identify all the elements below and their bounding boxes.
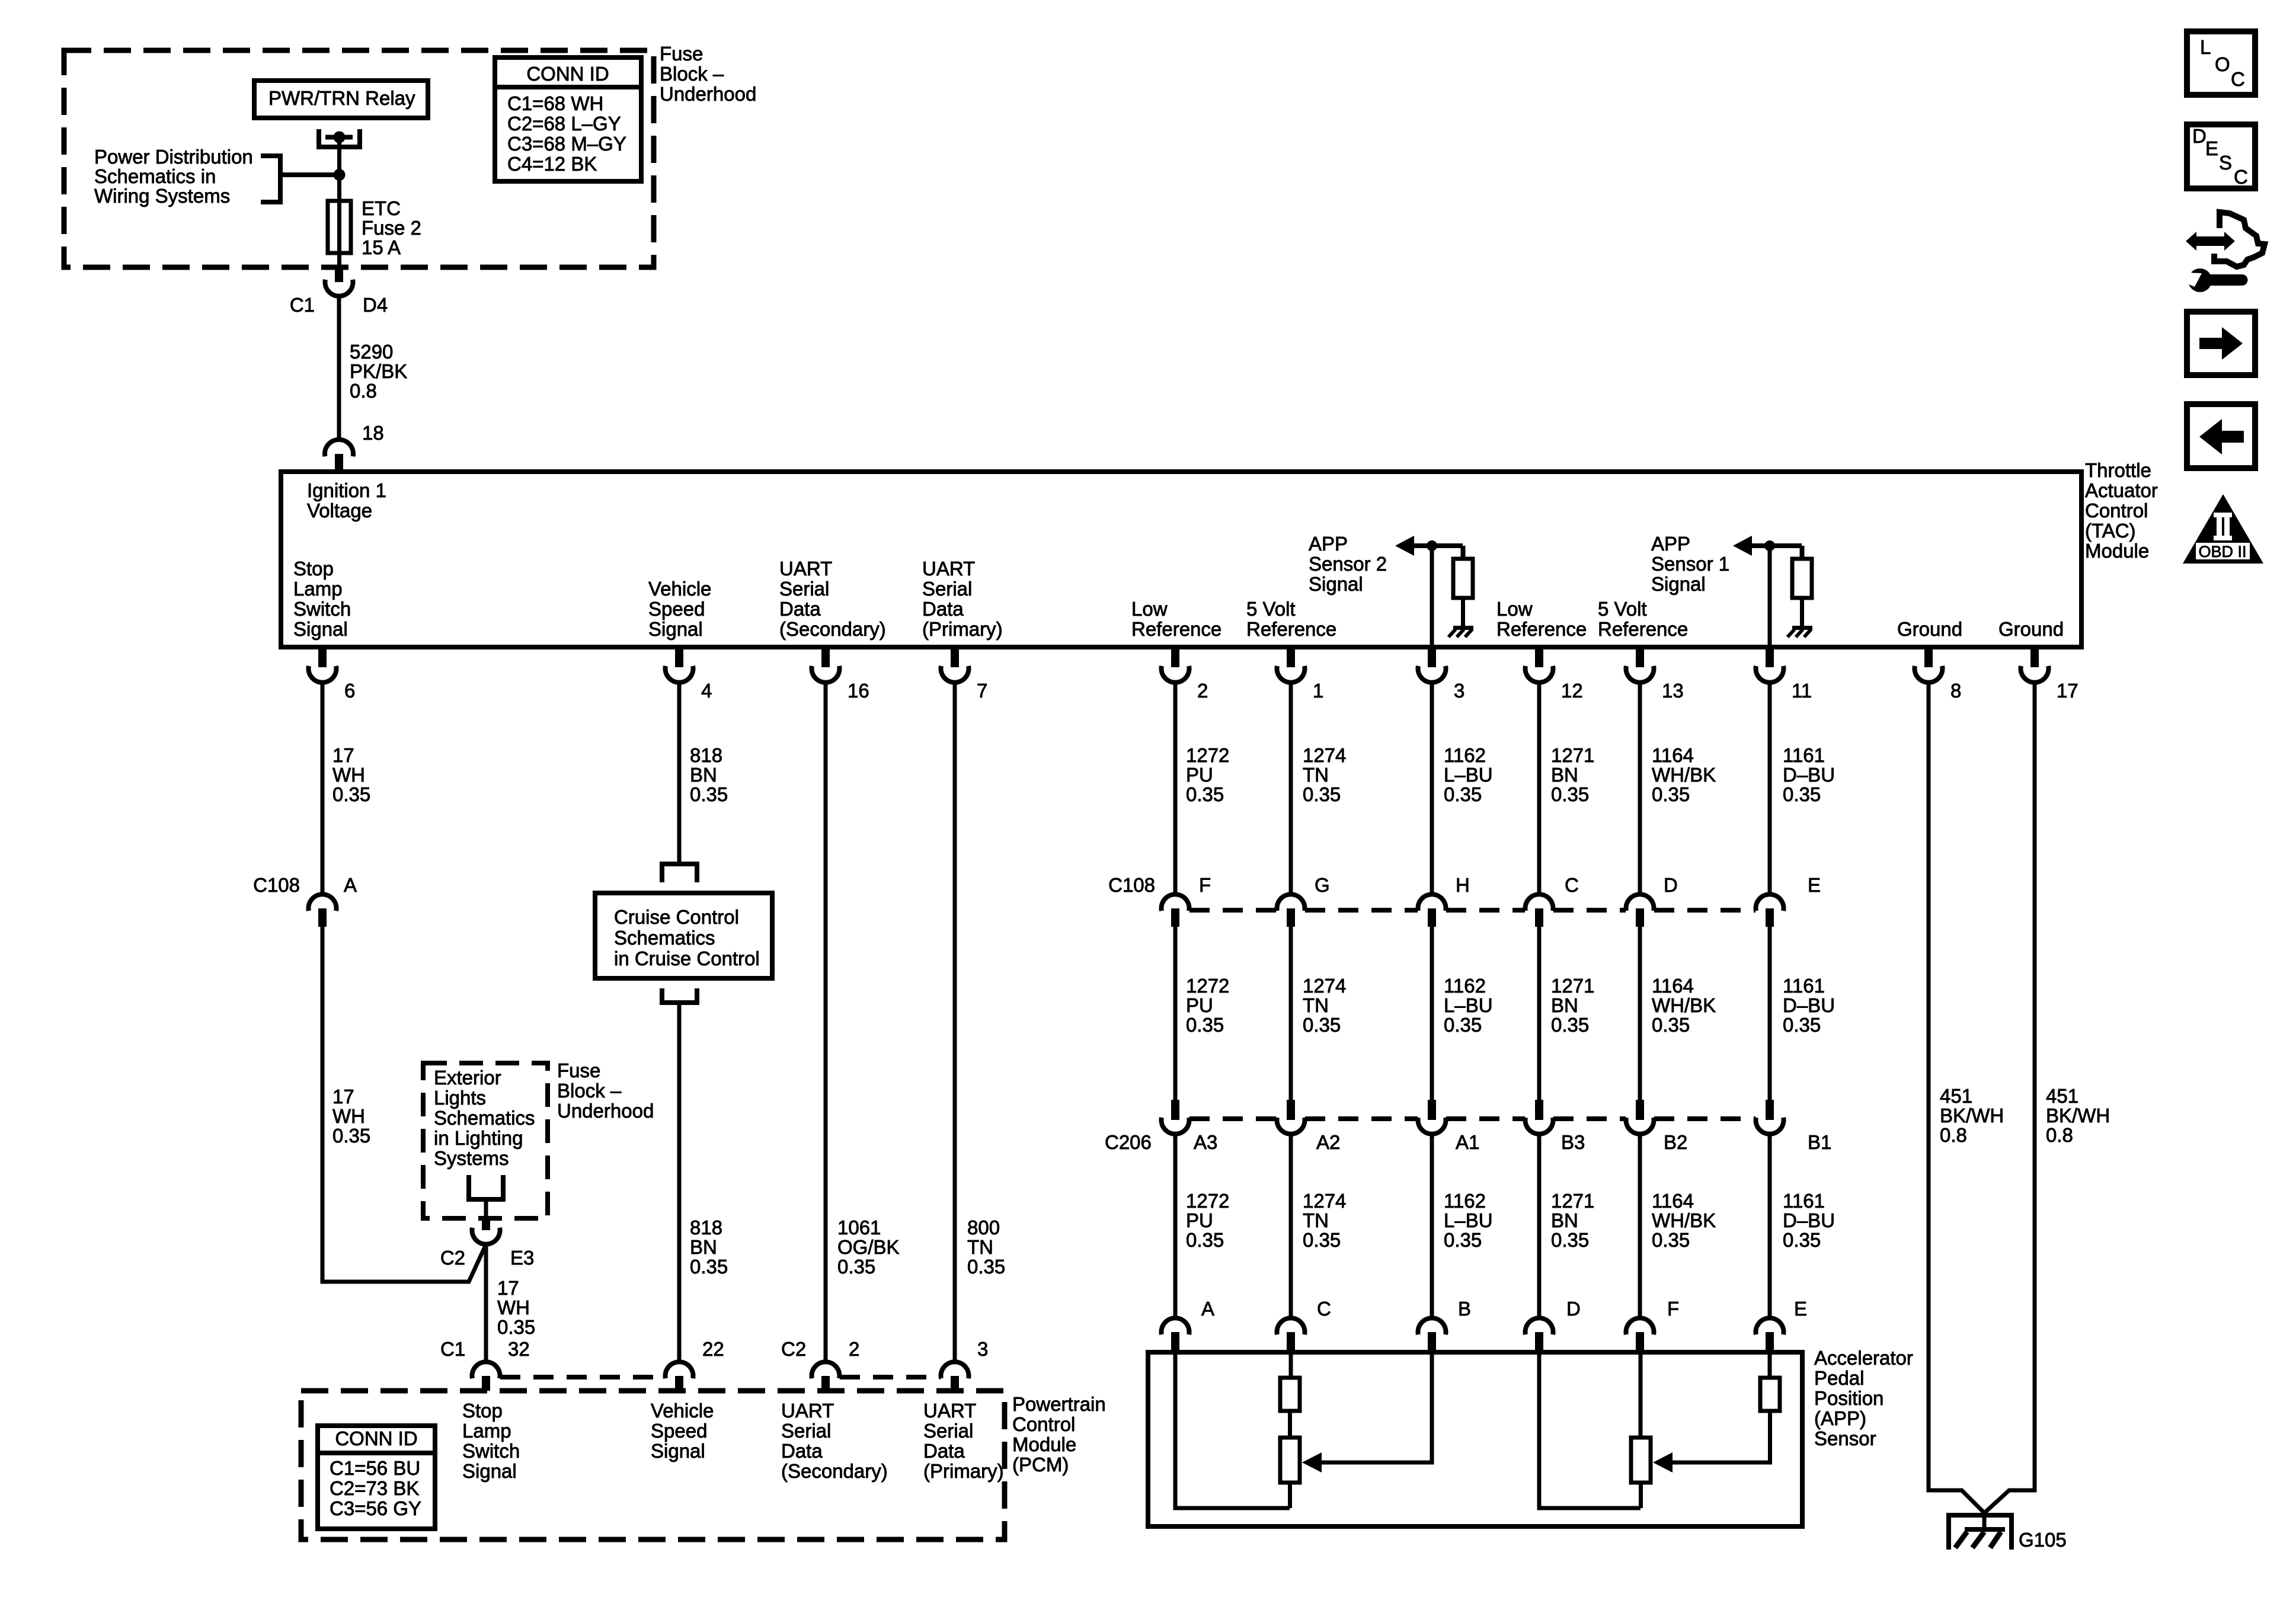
- svg-text:1271: 1271: [1551, 744, 1594, 766]
- icon forward arrow box: [2187, 312, 2255, 375]
- svg-text:C206: C206: [1105, 1131, 1152, 1153]
- arrow APP sensor 2 signal (points left): [1395, 536, 1414, 556]
- ground G105: [1948, 1513, 2014, 1518]
- svg-text:1161: 1161: [1783, 975, 1825, 997]
- wire 1272 PU (upper segment): [1173, 682, 1178, 895]
- svg-text:Module: Module: [1012, 1433, 1076, 1455]
- svg-text:17: 17: [497, 1277, 519, 1299]
- svg-text:Ground: Ground: [1897, 618, 1962, 640]
- wire 1272 PU (lower segment): [1173, 1134, 1178, 1318]
- relay contact symbol: [319, 129, 360, 147]
- svg-text:Schematics: Schematics: [614, 927, 715, 949]
- resistor APP2 divider (upper): [1280, 1378, 1300, 1411]
- wire C206 harness (dashed): [1189, 1116, 1277, 1121]
- wire 1161 D&#8211;BU (middle segment): [1768, 927, 1772, 1100]
- svg-text:818: 818: [690, 1217, 722, 1238]
- wire 1274 TN (middle segment): [1289, 927, 1293, 1100]
- svg-text:Signal: Signal: [462, 1460, 517, 1482]
- wire 818 BN to cruise bracket: [677, 862, 682, 866]
- svg-text:Switch: Switch: [293, 598, 351, 620]
- svg-text:1271: 1271: [1551, 1190, 1594, 1212]
- resistor R-APP1 (internal): [1792, 559, 1812, 598]
- icon jump (double arrow, polygon, wrench): [2186, 232, 2196, 251]
- svg-text:L: L: [2200, 36, 2211, 58]
- TAC module box (Throttle Actuator Control): [281, 472, 2081, 647]
- svg-text:Low: Low: [1131, 598, 1168, 620]
- svg-text:PU: PU: [1186, 994, 1213, 1016]
- svg-text:A: A: [1201, 1298, 1214, 1320]
- svg-text:CONN ID: CONN ID: [526, 63, 609, 85]
- svg-text:Exterior: Exterior: [434, 1067, 501, 1089]
- wire C108 harness (dashed): [1305, 908, 1418, 913]
- svg-text:Signal: Signal: [293, 618, 348, 640]
- wire 1164 WH/BK (upper segment): [1638, 682, 1642, 895]
- svg-text:UART: UART: [923, 1400, 976, 1422]
- svg-text:Ignition 1: Ignition 1: [307, 479, 386, 501]
- svg-text:1271: 1271: [1551, 975, 1594, 997]
- svg-text:12: 12: [1561, 680, 1583, 702]
- svg-text:G: G: [1315, 874, 1330, 896]
- svg-text:0.35: 0.35: [837, 1256, 875, 1278]
- svg-text:(APP): (APP): [1814, 1407, 1866, 1429]
- ground (internal, APP1): [1792, 626, 1812, 630]
- svg-text:E: E: [1808, 874, 1821, 896]
- wire 451 BK/WH (pin 17): [1982, 682, 2035, 1515]
- svg-text:0.35: 0.35: [1444, 1014, 1482, 1036]
- svg-text:5 Volt: 5 Volt: [1246, 598, 1296, 620]
- svg-text:UART: UART: [779, 558, 832, 580]
- svg-text:3: 3: [1454, 680, 1464, 702]
- ground (internal, APP2): [1453, 626, 1473, 630]
- wire pin3 internal: [1430, 546, 1434, 647]
- svg-text:1272: 1272: [1186, 744, 1229, 766]
- svg-text:ETC: ETC: [362, 197, 401, 219]
- svg-text:0.35: 0.35: [1783, 783, 1821, 805]
- wire C108 harness (dashed): [1553, 908, 1626, 913]
- svg-text:WH/BK: WH/BK: [1652, 994, 1716, 1016]
- svg-text:Block –: Block –: [557, 1080, 622, 1102]
- svg-text:Signal: Signal: [651, 1440, 705, 1462]
- svg-text:0.35: 0.35: [1303, 1014, 1341, 1036]
- svg-text:D–BU: D–BU: [1783, 764, 1835, 786]
- svg-text:1274: 1274: [1303, 744, 1346, 766]
- svg-text:(Secondary): (Secondary): [779, 618, 886, 640]
- resistor R-APP2 (internal): [1453, 559, 1473, 598]
- svg-text:S: S: [2219, 152, 2232, 174]
- svg-text:A2: A2: [1316, 1131, 1340, 1153]
- wire PCM harness dashed (2-3): [840, 1375, 941, 1379]
- svg-text:B1: B1: [1808, 1131, 1831, 1153]
- svg-text:18: 18: [362, 422, 384, 444]
- svg-text:1: 1: [1313, 680, 1323, 702]
- svg-text:Data: Data: [922, 598, 964, 620]
- svg-text:Lamp: Lamp: [462, 1420, 511, 1442]
- svg-text:0.35: 0.35: [1551, 1229, 1589, 1251]
- potentiometer APP2 element: [1280, 1438, 1300, 1483]
- svg-text:BK/WH: BK/WH: [1940, 1105, 2004, 1126]
- svg-text:C108: C108: [1108, 874, 1155, 896]
- svg-text:C: C: [1317, 1298, 1331, 1320]
- svg-text:D–BU: D–BU: [1783, 994, 1835, 1016]
- svg-text:A: A: [344, 874, 357, 896]
- wire C206 harness (dashed): [1305, 1116, 1418, 1121]
- exterior lights schematics box (dashed): [423, 1063, 548, 1218]
- svg-text:C108: C108: [253, 874, 300, 896]
- svg-text:0.35: 0.35: [332, 1125, 370, 1147]
- svg-text:BN: BN: [690, 1236, 717, 1258]
- svg-text:F: F: [1667, 1298, 1679, 1320]
- svg-text:Sensor: Sensor: [1814, 1427, 1876, 1449]
- fuse block - underhood (dashed outline): [64, 50, 654, 267]
- svg-text:Speed: Speed: [651, 1420, 707, 1442]
- svg-text:Lights: Lights: [434, 1087, 486, 1109]
- svg-text:2: 2: [1197, 680, 1208, 702]
- svg-text:B2: B2: [1664, 1131, 1687, 1153]
- svg-text:UART: UART: [922, 558, 975, 580]
- svg-text:0.8: 0.8: [2046, 1124, 2073, 1146]
- svg-text:Sensor 1: Sensor 1: [1651, 553, 1729, 575]
- wire 1164 WH/BK (lower segment): [1638, 1134, 1642, 1318]
- svg-text:(PCM): (PCM): [1012, 1454, 1069, 1475]
- svg-text:Vehicle: Vehicle: [651, 1400, 714, 1422]
- svg-text:Powertrain: Powertrain: [1012, 1393, 1106, 1415]
- svg-text:(Primary): (Primary): [923, 1460, 1004, 1482]
- svg-text:Cruise Control: Cruise Control: [614, 906, 739, 928]
- svg-text:Wiring Systems: Wiring Systems: [94, 185, 230, 207]
- svg-text:BN: BN: [690, 764, 717, 786]
- svg-text:CONN ID: CONN ID: [335, 1427, 417, 1449]
- svg-text:8: 8: [1950, 680, 1961, 702]
- svg-text:WH: WH: [497, 1297, 530, 1318]
- svg-text:Schematics: Schematics: [434, 1107, 535, 1129]
- svg-text:3: 3: [977, 1338, 988, 1360]
- pin 13 (TAC module): [1636, 649, 1644, 667]
- svg-text:PU: PU: [1186, 764, 1213, 786]
- svg-text:WH: WH: [332, 764, 365, 786]
- svg-text:Accelerator: Accelerator: [1814, 1347, 1913, 1369]
- svg-text:7: 7: [977, 680, 987, 702]
- svg-text:TN: TN: [1303, 994, 1329, 1016]
- wire 17 WH (pin 6 upper segment): [321, 682, 325, 895]
- connector C206 pin A2: [1287, 1100, 1295, 1120]
- svg-text:Speed: Speed: [648, 598, 705, 620]
- connector C108 pin E: [1756, 894, 1784, 911]
- svg-text:Throttle: Throttle: [2085, 459, 2151, 481]
- svg-text:1164: 1164: [1652, 975, 1694, 997]
- connector C206 pin B1: [1766, 1100, 1774, 1120]
- svg-text:0.35: 0.35: [1186, 1229, 1224, 1251]
- svg-text:C2: C2: [781, 1338, 806, 1360]
- svg-text:32: 32: [508, 1338, 530, 1360]
- wire bracket to connector C2: [484, 1199, 488, 1216]
- svg-text:E: E: [1794, 1298, 1807, 1320]
- svg-text:Data: Data: [781, 1440, 823, 1462]
- wire APP1 pull-up corner: [1800, 546, 1805, 559]
- svg-text:L–BU: L–BU: [1444, 1209, 1493, 1231]
- wire 1271 BN (middle segment): [1537, 927, 1542, 1100]
- resistor APP1 divider (upper): [1760, 1378, 1780, 1411]
- svg-text:Position: Position: [1814, 1387, 1884, 1409]
- svg-text:0.35: 0.35: [967, 1256, 1005, 1278]
- pin 2 (TAC module): [1171, 649, 1179, 667]
- pin 16 (TAC module): [821, 649, 830, 667]
- svg-text:in Cruise Control: in Cruise Control: [614, 948, 760, 969]
- svg-text:Underhood: Underhood: [557, 1100, 654, 1122]
- svg-text:C1=68 WH: C1=68 WH: [507, 92, 603, 114]
- svg-text:0.35: 0.35: [1303, 783, 1341, 805]
- svg-text:Lamp: Lamp: [293, 578, 343, 600]
- svg-text:O: O: [2215, 53, 2230, 75]
- pin 11 (TAC module): [1766, 649, 1774, 667]
- wire APP2 pull-up corner: [1461, 546, 1466, 559]
- svg-text:D: D: [2192, 125, 2207, 147]
- connector C206 pin A1: [1428, 1100, 1436, 1120]
- svg-text:Sensor 2: Sensor 2: [1309, 553, 1387, 575]
- svg-text:(Secondary): (Secondary): [781, 1460, 888, 1482]
- svg-text:D–BU: D–BU: [1783, 1209, 1835, 1231]
- svg-text:Serial: Serial: [781, 1420, 831, 1442]
- icon DESC box: [2187, 124, 2255, 188]
- svg-text:C2: C2: [440, 1247, 465, 1269]
- svg-text:WH/BK: WH/BK: [1652, 764, 1716, 786]
- svg-text:BN: BN: [1551, 994, 1578, 1016]
- wire APP pin E to resistor: [1768, 1352, 1772, 1378]
- svg-text:5 Volt: 5 Volt: [1598, 598, 1647, 620]
- svg-text:Pedal: Pedal: [1814, 1367, 1864, 1389]
- junction J1 (node): [334, 169, 346, 181]
- svg-text:OG/BK: OG/BK: [837, 1236, 900, 1258]
- fuse ETC Fuse 2 15 A: [328, 201, 351, 253]
- svg-text:Data: Data: [779, 598, 821, 620]
- svg-text:17: 17: [2057, 680, 2078, 702]
- svg-text:C: C: [1565, 874, 1579, 896]
- wire 1274 TN (upper segment): [1289, 682, 1293, 895]
- wire C206 harness (dashed): [1553, 1116, 1626, 1121]
- svg-text:Stop: Stop: [293, 558, 334, 580]
- wire C108 harness (dashed): [1446, 908, 1525, 913]
- pin 3 (TAC module): [1428, 649, 1436, 667]
- svg-text:16: 16: [848, 680, 869, 702]
- wire fuse to connector C1: [337, 253, 341, 265]
- connector C108 pin F: [1162, 894, 1189, 911]
- svg-text:WH/BK: WH/BK: [1652, 1209, 1716, 1231]
- svg-text:C1: C1: [290, 294, 315, 316]
- svg-text:TN: TN: [967, 1236, 993, 1258]
- wire APP pin B wiper: [1320, 1352, 1432, 1462]
- svg-text:0.35: 0.35: [1783, 1014, 1821, 1036]
- svg-text:Actuator: Actuator: [2085, 479, 2158, 501]
- connector C108 pin H: [1418, 894, 1446, 911]
- svg-text:Serial: Serial: [923, 1420, 973, 1442]
- svg-text:4: 4: [701, 680, 712, 702]
- svg-text:E3: E3: [510, 1247, 534, 1269]
- svg-text:OBD II: OBD II: [2198, 543, 2246, 561]
- svg-text:0.35: 0.35: [1444, 1229, 1482, 1251]
- wire pin11 internal: [1768, 546, 1772, 647]
- svg-text:in Lighting: in Lighting: [434, 1127, 523, 1149]
- svg-text:Data: Data: [923, 1440, 965, 1462]
- svg-text:0.35: 0.35: [690, 1256, 728, 1278]
- conn id table (fuse block): [495, 57, 641, 181]
- wire 1162 L&#8211;BU (middle segment): [1430, 927, 1434, 1100]
- svg-text:11: 11: [1792, 680, 1812, 702]
- icon LOC box: [2187, 31, 2255, 95]
- svg-text:WH: WH: [332, 1105, 365, 1127]
- svg-text:0.35: 0.35: [497, 1316, 535, 1338]
- connector C108 pin C: [1526, 894, 1553, 911]
- svg-text:L–BU: L–BU: [1444, 764, 1493, 786]
- svg-text:451: 451: [1940, 1085, 1972, 1107]
- svg-text:BN: BN: [1551, 764, 1578, 786]
- svg-text:C4=12 BK: C4=12 BK: [507, 153, 597, 175]
- wire 451 BK/WH (pin 8): [1929, 682, 1987, 1515]
- wire 1274 TN (lower segment): [1289, 1134, 1293, 1318]
- svg-text:0.35: 0.35: [1783, 1229, 1821, 1251]
- svg-text:C3=56 GY: C3=56 GY: [330, 1497, 421, 1519]
- wire 17 WH (E3 to PCM): [484, 1244, 488, 1362]
- svg-text:1162: 1162: [1444, 1190, 1486, 1212]
- wire 1271 BN (lower segment): [1537, 1134, 1542, 1318]
- relay PWR/TRN Relay (name box): [254, 81, 428, 118]
- wire 800 TN (pin 7 segment): [953, 682, 957, 1362]
- svg-text:Systems: Systems: [434, 1147, 509, 1169]
- node: APP1 junction dot: [1764, 540, 1775, 551]
- svg-text:D: D: [1664, 874, 1678, 896]
- svg-text:0.35: 0.35: [1303, 1229, 1341, 1251]
- svg-text:C3=68 M–GY: C3=68 M–GY: [507, 133, 626, 155]
- svg-text:13: 13: [1662, 680, 1684, 702]
- svg-text:Power Distribution: Power Distribution: [94, 146, 253, 168]
- svg-text:5290: 5290: [350, 341, 393, 363]
- wire APP pin D to pot low: [1539, 1352, 1641, 1508]
- wire PCM harness dashed (32-22): [500, 1375, 665, 1379]
- svg-text:APP: APP: [1651, 533, 1690, 555]
- svg-text:F: F: [1199, 874, 1211, 896]
- connector C108 pin G: [1277, 894, 1305, 911]
- connector C206 pin A3: [1171, 1100, 1179, 1120]
- svg-text:Schematics in: Schematics in: [94, 165, 216, 187]
- potentiometer APP1 element: [1631, 1438, 1651, 1483]
- wire 1061 OG/BK (pin 16 segment): [824, 682, 828, 1362]
- svg-text:L–BU: L–BU: [1444, 994, 1493, 1016]
- wire 1272 PU (middle segment): [1173, 927, 1178, 1100]
- wire 1271 BN (upper segment): [1537, 682, 1542, 895]
- svg-text:H: H: [1456, 874, 1470, 896]
- svg-text:0.35: 0.35: [690, 783, 728, 805]
- svg-text:1274: 1274: [1303, 1190, 1346, 1212]
- svg-text:Stop: Stop: [462, 1400, 503, 1422]
- svg-text:B3: B3: [1561, 1131, 1585, 1153]
- arrow wiper APP1 (points left): [1653, 1452, 1673, 1473]
- svg-text:C2=73 BK: C2=73 BK: [330, 1477, 419, 1499]
- wire R-APP1 to ground: [1800, 598, 1804, 626]
- pin 6 (TAC module): [318, 649, 327, 667]
- wire C108 harness (dashed): [1654, 908, 1755, 913]
- pin 7 (TAC module): [951, 649, 959, 667]
- svg-text:D: D: [1566, 1298, 1581, 1320]
- connector C108 pin D: [1626, 894, 1654, 911]
- wire 1161 D&#8211;BU (upper segment): [1768, 682, 1772, 895]
- wire APP pin A to pot low: [1175, 1352, 1290, 1508]
- arrow wiper APP2 (points left): [1302, 1452, 1322, 1473]
- svg-text:Voltage: Voltage: [307, 500, 372, 521]
- svg-text:Reference: Reference: [1246, 618, 1336, 640]
- connector C206 pin B3: [1535, 1100, 1543, 1120]
- svg-text:Control: Control: [2085, 500, 2148, 521]
- pin 1 (TAC module): [1287, 649, 1295, 667]
- svg-text:1161: 1161: [1783, 744, 1825, 766]
- svg-text:(TAC): (TAC): [2085, 520, 2136, 542]
- svg-text:1164: 1164: [1652, 744, 1694, 766]
- wire 17 WH (lower run: down, right, diagonal): [322, 927, 486, 1282]
- APP sensor box (Accelerator Pedal Position): [1148, 1352, 1802, 1526]
- svg-text:C1=56 BU: C1=56 BU: [330, 1457, 420, 1479]
- wire pot bottom (APP2): [1288, 1483, 1292, 1508]
- off-page bracket (exterior lights): [466, 1175, 471, 1199]
- connector C206 pin B2: [1636, 1100, 1644, 1120]
- svg-text:1162: 1162: [1444, 744, 1486, 766]
- wire APP pin E wiper: [1671, 1411, 1770, 1462]
- wire 1162 L&#8211;BU (upper segment): [1430, 682, 1434, 895]
- svg-text:1061: 1061: [837, 1217, 881, 1238]
- svg-text:A3: A3: [1194, 1131, 1217, 1153]
- svg-text:1272: 1272: [1186, 1190, 1229, 1212]
- icon back arrow box: [2187, 404, 2255, 468]
- svg-text:D4: D4: [363, 294, 388, 316]
- svg-text:0.8: 0.8: [1940, 1124, 1967, 1146]
- svg-text:17: 17: [332, 744, 354, 766]
- svg-text:(Primary): (Primary): [922, 618, 1003, 640]
- svg-text:6: 6: [344, 680, 355, 702]
- svg-text:Fuse 2: Fuse 2: [362, 217, 421, 239]
- svg-text:0.35: 0.35: [1652, 1014, 1690, 1036]
- svg-text:E: E: [2205, 137, 2218, 159]
- svg-text:Switch: Switch: [462, 1440, 520, 1462]
- PCM box (dashed outline): [301, 1391, 1005, 1539]
- svg-text:PWR/TRN Relay: PWR/TRN Relay: [268, 87, 415, 109]
- svg-text:0.35: 0.35: [1652, 1229, 1690, 1251]
- wire 818 BN (pin 4 upper segment): [677, 682, 682, 862]
- svg-text:TN: TN: [1303, 764, 1329, 786]
- svg-text:C: C: [2231, 68, 2245, 90]
- wire 818 BN (lower segment): [677, 1005, 682, 1362]
- wire 1162 L&#8211;BU (lower segment): [1430, 1134, 1434, 1318]
- svg-text:B: B: [1458, 1298, 1471, 1320]
- pin 4 (TAC module): [675, 649, 683, 667]
- pin 17 (TAC module): [2030, 649, 2039, 667]
- svg-text:PK/BK: PK/BK: [350, 360, 407, 382]
- wire pot bottom (APP1): [1639, 1483, 1643, 1508]
- svg-text:1274: 1274: [1303, 975, 1346, 997]
- wire 1161 D&#8211;BU (lower segment): [1768, 1134, 1772, 1318]
- icon OBD II triangle: [2183, 494, 2263, 564]
- svg-text:800: 800: [967, 1217, 1000, 1238]
- svg-text:Reference: Reference: [1496, 618, 1587, 640]
- svg-text:818: 818: [690, 744, 722, 766]
- svg-text:Fuse: Fuse: [557, 1060, 600, 1081]
- svg-text:Reference: Reference: [1598, 618, 1688, 640]
- pin 12 (TAC module): [1535, 649, 1543, 667]
- svg-text:0.35: 0.35: [1551, 783, 1589, 805]
- svg-text:2: 2: [849, 1338, 859, 1360]
- svg-text:C2=68 L–GY: C2=68 L–GY: [507, 113, 621, 135]
- svg-text:A1: A1: [1456, 1131, 1479, 1153]
- wire 1164 WH/BK (middle segment): [1638, 927, 1642, 1100]
- svg-text:Fuse: Fuse: [660, 43, 703, 65]
- svg-text:Serial: Serial: [779, 578, 829, 600]
- svg-text:451: 451: [2046, 1085, 2078, 1107]
- wire C206 harness (dashed): [1654, 1116, 1755, 1121]
